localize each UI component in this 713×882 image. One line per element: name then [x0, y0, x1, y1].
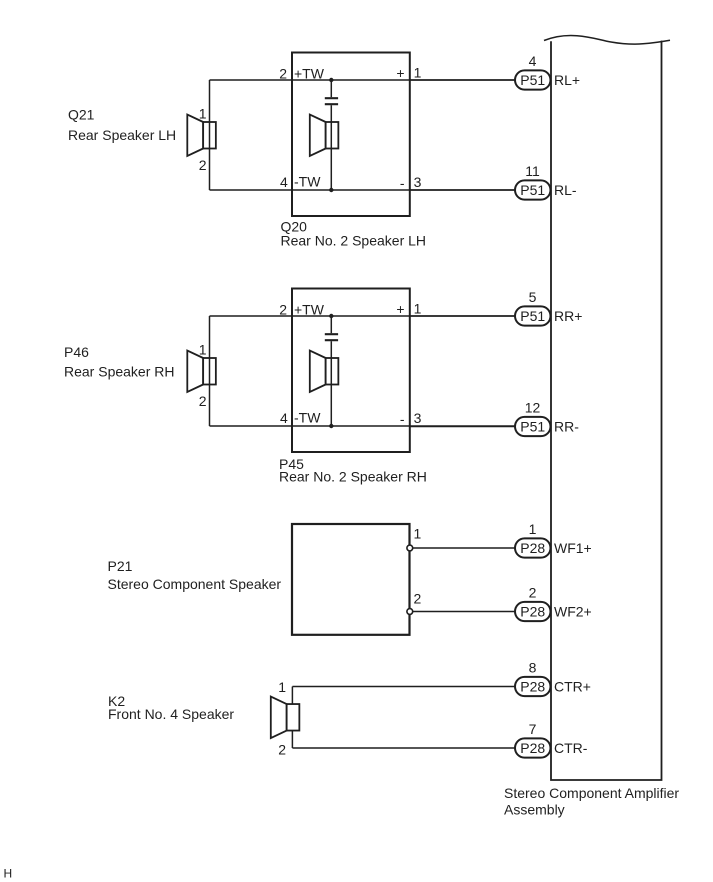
svg-text:Stereo Component Speaker: Stereo Component Speaker — [108, 576, 282, 592]
svg-text:4: 4 — [280, 174, 288, 190]
svg-text:RR+: RR+ — [554, 308, 582, 324]
svg-text:P51: P51 — [520, 308, 545, 324]
svg-text:2: 2 — [414, 591, 422, 607]
svg-text:2: 2 — [279, 302, 287, 318]
svg-text:1: 1 — [199, 106, 207, 122]
svg-text:4: 4 — [529, 53, 537, 69]
svg-text:5: 5 — [529, 289, 537, 305]
svg-text:Stereo Component Amplifier: Stereo Component Amplifier — [504, 785, 679, 801]
svg-text:CTR-: CTR- — [554, 740, 588, 756]
svg-text:-TW: -TW — [294, 174, 321, 190]
svg-text:+TW: +TW — [294, 65, 325, 81]
svg-text:2: 2 — [199, 157, 207, 173]
svg-text:1: 1 — [414, 526, 422, 542]
svg-text:2: 2 — [279, 66, 287, 82]
svg-text:P28: P28 — [520, 679, 545, 695]
svg-text:CTR+: CTR+ — [554, 679, 591, 695]
svg-text:2: 2 — [199, 393, 207, 409]
svg-text:Front No. 4 Speaker: Front No. 4 Speaker — [108, 706, 234, 722]
svg-text:2: 2 — [278, 742, 286, 758]
svg-text:P51: P51 — [520, 72, 545, 88]
svg-text:P28: P28 — [520, 740, 545, 756]
svg-text:1: 1 — [199, 342, 207, 358]
svg-text:+TW: +TW — [294, 301, 325, 317]
svg-text:+: + — [396, 65, 404, 81]
svg-text:P28: P28 — [520, 604, 545, 620]
svg-text:3: 3 — [414, 174, 422, 190]
svg-text:1: 1 — [414, 301, 422, 317]
svg-text:RL-: RL- — [554, 182, 577, 198]
svg-text:-TW: -TW — [294, 410, 321, 426]
svg-text:Rear Speaker RH: Rear Speaker RH — [64, 364, 175, 380]
svg-text:P51: P51 — [520, 419, 545, 435]
svg-text:RL+: RL+ — [554, 72, 580, 88]
svg-text:Q21: Q21 — [68, 107, 95, 123]
svg-text:Rear No. 2 Speaker LH: Rear No. 2 Speaker LH — [281, 233, 427, 249]
svg-text:P51: P51 — [520, 182, 545, 198]
svg-text:P46: P46 — [64, 344, 89, 360]
svg-text:2: 2 — [529, 585, 537, 601]
svg-text:WF2+: WF2+ — [554, 604, 592, 620]
svg-text:-: - — [400, 175, 405, 191]
svg-text:1: 1 — [278, 679, 286, 695]
svg-text:P21: P21 — [108, 558, 133, 574]
svg-text:1: 1 — [529, 521, 537, 537]
svg-text:P28: P28 — [520, 540, 545, 556]
svg-text:8: 8 — [529, 660, 537, 676]
svg-text:Rear No. 2 Speaker RH: Rear No. 2 Speaker RH — [279, 469, 427, 485]
svg-text:Rear Speaker LH: Rear Speaker LH — [68, 127, 176, 143]
svg-text:WF1+: WF1+ — [554, 540, 592, 556]
svg-text:1: 1 — [414, 65, 422, 81]
svg-text:3: 3 — [414, 410, 422, 426]
svg-text:7: 7 — [529, 721, 537, 737]
svg-text:H: H — [4, 867, 13, 881]
svg-text:Assembly: Assembly — [504, 802, 565, 818]
svg-text:+: + — [396, 301, 404, 317]
svg-text:11: 11 — [525, 163, 540, 179]
svg-text:12: 12 — [525, 400, 541, 416]
svg-text:-: - — [400, 411, 405, 427]
svg-text:4: 4 — [280, 410, 288, 426]
svg-text:RR-: RR- — [554, 419, 579, 435]
